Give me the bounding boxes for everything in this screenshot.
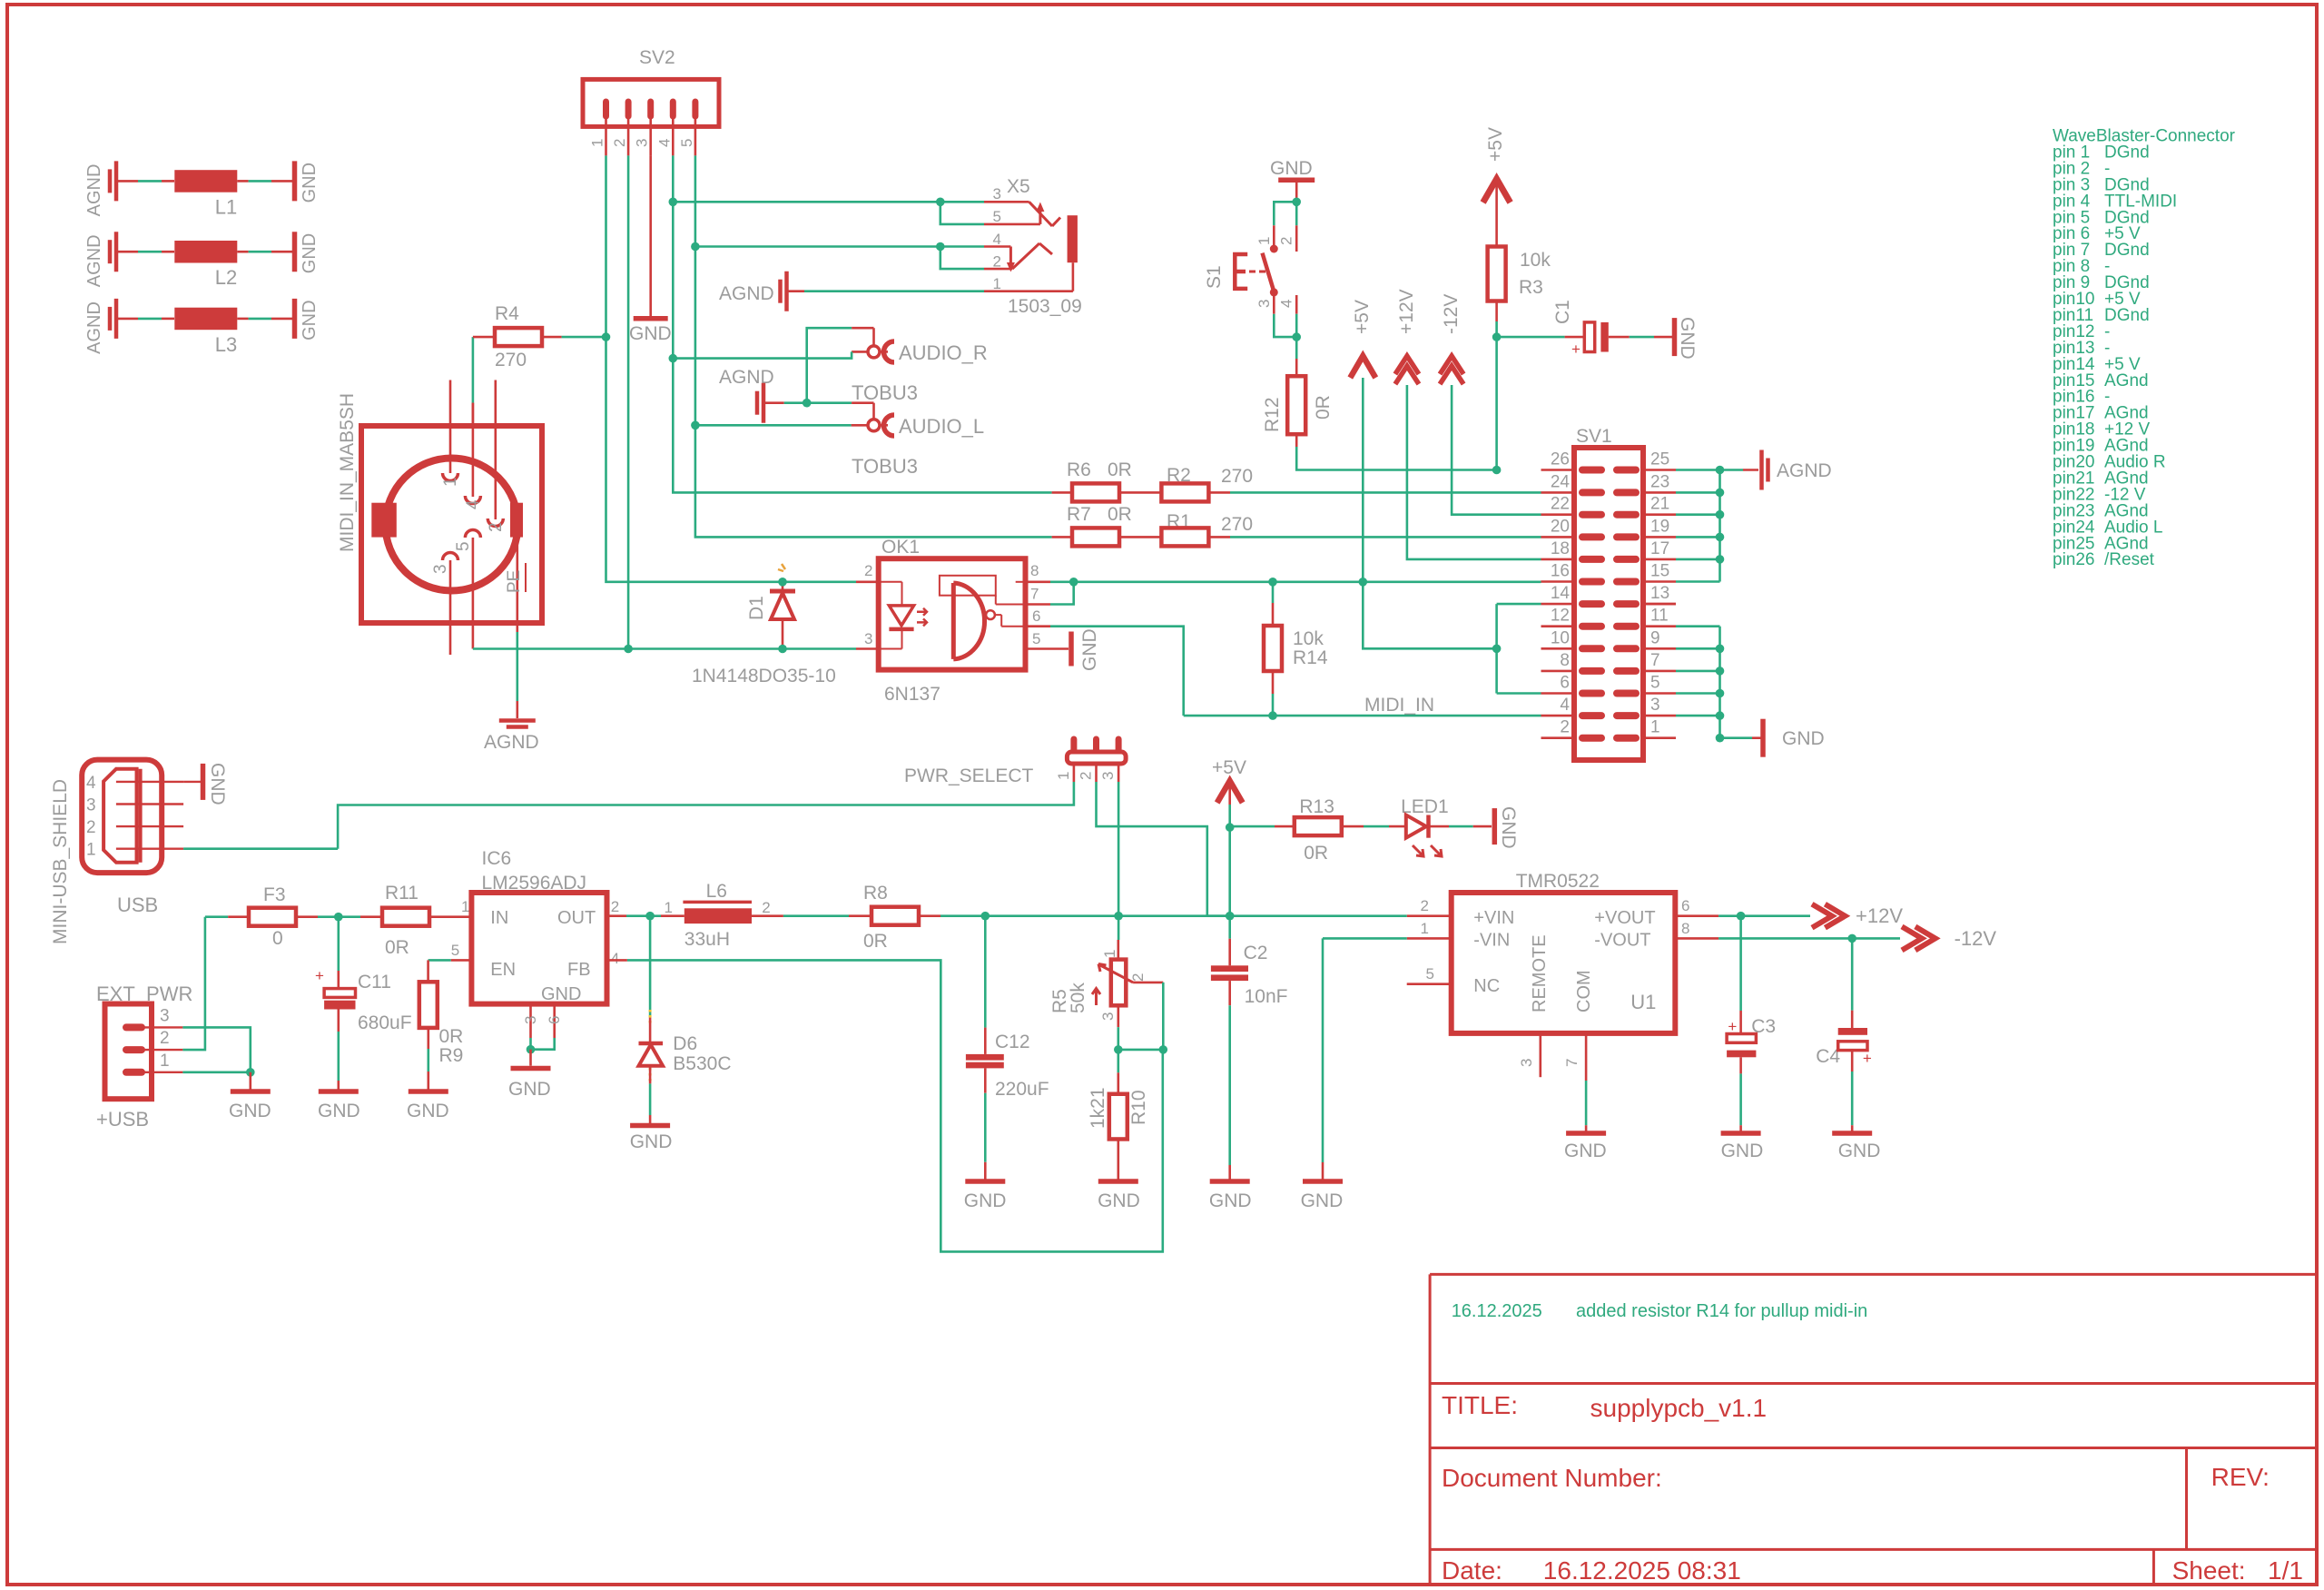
svg-text:1: 1 xyxy=(86,841,96,860)
ground GND (SV1.1) xyxy=(1720,736,1753,739)
svg-text:AUDIO_R: AUDIO_R xyxy=(899,341,988,364)
junction +5V/R13 xyxy=(1226,823,1235,832)
wire SV2.2 down xyxy=(627,155,630,648)
svg-text:MIDI_IN: MIDI_IN xyxy=(1364,695,1434,716)
svg-text:GND: GND xyxy=(541,984,581,1004)
svg-text:18: 18 xyxy=(1551,539,1570,558)
svg-text:C12: C12 xyxy=(995,1032,1030,1052)
wire to R5 node xyxy=(985,914,1118,917)
junction S1 bottom xyxy=(1292,332,1301,341)
wire AGND to AUDIO_L top xyxy=(807,401,852,404)
svg-text:6: 6 xyxy=(546,1016,563,1024)
SV1 pin 13 longer stub xyxy=(1643,603,1676,606)
svg-text:GND: GND xyxy=(300,163,320,202)
SV1 pin 7 xyxy=(1617,667,1636,675)
DIN pin3 stub xyxy=(449,560,452,655)
svg-text:GND: GND xyxy=(1079,628,1100,671)
svg-text:5: 5 xyxy=(454,541,473,551)
junction SV1.10 xyxy=(1492,645,1502,654)
junction SV2 pin5 / X5.4 xyxy=(691,242,700,252)
junction +5V rail xyxy=(1359,578,1368,587)
wire SV1 left bus 14-10-6 xyxy=(1497,603,1541,606)
SV1 pin 26 xyxy=(1541,469,1575,471)
svg-text:+12V: +12V xyxy=(1856,904,1903,927)
svg-text:DGnd: DGnd xyxy=(2104,306,2150,325)
svg-text:5: 5 xyxy=(1032,630,1040,647)
svg-text:17: 17 xyxy=(1650,539,1669,558)
svg-text:3: 3 xyxy=(1518,1059,1535,1067)
svg-text:1: 1 xyxy=(1055,772,1072,780)
SV1 pin 18 xyxy=(1541,558,1575,561)
svg-text:GND: GND xyxy=(630,1131,673,1152)
svg-text:1: 1 xyxy=(993,275,1001,292)
USB pin 4 xyxy=(116,781,183,783)
wire SV1 right AGND bus xyxy=(1676,491,1720,494)
svg-text:GND: GND xyxy=(207,763,228,805)
svg-text:1: 1 xyxy=(1256,237,1273,245)
svg-text:MINI-USB_SHIELD: MINI-USB_SHIELD xyxy=(50,779,71,944)
SV1 pin 21 xyxy=(1617,511,1636,518)
svg-text:3: 3 xyxy=(522,1016,539,1024)
svg-text:270: 270 xyxy=(1221,514,1253,535)
PWR_SELECT pin 1 xyxy=(1070,739,1077,751)
wire C2 node to TMR +VIN xyxy=(1230,914,1407,917)
svg-text:5: 5 xyxy=(1650,674,1660,693)
svg-text:5: 5 xyxy=(1426,965,1434,983)
SV1 pin 25 xyxy=(1617,467,1636,474)
svg-text:3: 3 xyxy=(1650,696,1660,715)
OK1 pin3 stub xyxy=(856,647,879,650)
svg-text:R10: R10 xyxy=(1128,1090,1149,1125)
svg-text:1: 1 xyxy=(589,139,606,147)
svg-text:2: 2 xyxy=(1078,772,1095,780)
svg-text:3: 3 xyxy=(1099,1012,1117,1021)
wire SV2.4 down xyxy=(673,155,1051,492)
OK1 pin6 stub xyxy=(1026,625,1051,627)
svg-text:2: 2 xyxy=(160,1029,170,1048)
svg-text:R6: R6 xyxy=(1067,459,1091,480)
SV1 pin 15 xyxy=(1617,578,1636,586)
svg-text:4: 4 xyxy=(655,139,673,147)
junction R14 top xyxy=(1268,578,1277,587)
wire PE to AGND xyxy=(516,632,518,701)
svg-text:AGND: AGND xyxy=(84,164,104,217)
svg-text:0R: 0R xyxy=(1108,504,1132,525)
wire AUDIO_R top to AGND xyxy=(807,328,852,403)
svg-text:OK1: OK1 xyxy=(881,537,920,558)
SV1 pin 17 xyxy=(1617,556,1636,563)
svg-text:AGND: AGND xyxy=(484,732,539,753)
svg-text:C11: C11 xyxy=(358,972,391,993)
svg-text:3: 3 xyxy=(431,564,450,574)
ground GND (C2) xyxy=(1210,1179,1250,1184)
wire SV2.5 down xyxy=(695,155,1052,537)
svg-text:3: 3 xyxy=(86,796,96,815)
svg-text:6: 6 xyxy=(1032,607,1040,625)
svg-text:IC6: IC6 xyxy=(482,848,512,869)
svg-text:270: 270 xyxy=(495,350,527,370)
svg-text:+VOUT: +VOUT xyxy=(1594,908,1655,928)
DIN pin2 stub xyxy=(494,380,497,520)
SV2 pin 5 xyxy=(692,102,698,116)
IC6 EN stub to R9 xyxy=(451,959,472,962)
wire OK1.6 to MIDI_IN xyxy=(1050,627,1184,716)
SV1 pin 9 xyxy=(1617,645,1636,652)
svg-text:2: 2 xyxy=(487,522,506,532)
SV1 pin 13 xyxy=(1617,600,1636,607)
junction IC6 gnd pins xyxy=(527,1045,536,1054)
switch S1 xyxy=(1274,202,1296,225)
svg-text:680uF: 680uF xyxy=(358,1012,412,1033)
svg-text:added resistor R14 for pullup: added resistor R14 for pullup midi-in xyxy=(1576,1301,1867,1321)
junction AGND/TOBU3 xyxy=(803,399,812,408)
wire L6 to R8 xyxy=(783,914,849,917)
svg-text:GND: GND xyxy=(1498,806,1519,849)
svg-text:R8: R8 xyxy=(863,883,888,904)
svg-text:3: 3 xyxy=(993,185,1001,202)
svg-text:7: 7 xyxy=(1650,651,1660,670)
svg-text:1: 1 xyxy=(160,1052,170,1071)
junction R14 bottom / MIDI_IN xyxy=(1268,711,1277,720)
svg-text:U1: U1 xyxy=(1630,991,1656,1013)
SV1 pin 11 xyxy=(1617,623,1636,630)
svg-text:R7: R7 xyxy=(1067,504,1091,525)
svg-text:2: 2 xyxy=(762,899,770,916)
svg-text:6: 6 xyxy=(1560,674,1570,693)
svg-text:R12: R12 xyxy=(1262,397,1283,432)
svg-text:6: 6 xyxy=(1681,897,1689,914)
supply arrow -12V out xyxy=(1902,926,1922,950)
IC6 bottom pins 3,6 xyxy=(529,1004,532,1038)
svg-text:GND: GND xyxy=(1564,1141,1607,1161)
svg-text:+: + xyxy=(1863,1050,1872,1067)
junction R4/SV2.1 xyxy=(602,332,611,341)
svg-text:R13: R13 xyxy=(1299,796,1334,817)
DIN PE pin xyxy=(516,538,518,605)
svg-text:16.12.2025: 16.12.2025 xyxy=(1452,1301,1542,1321)
junction C4/-12V xyxy=(1847,934,1856,943)
svg-text:1N4148DO35-10: 1N4148DO35-10 xyxy=(692,666,836,686)
svg-text:5: 5 xyxy=(678,139,695,147)
EXT_PWR pin 2 xyxy=(126,1046,142,1053)
inductor L3 xyxy=(114,299,119,339)
ground GND (LED1) xyxy=(1492,808,1498,844)
svg-text:8: 8 xyxy=(1560,651,1570,670)
title block xyxy=(1430,1274,2317,1585)
junction EXT_PWR GND xyxy=(246,1068,255,1077)
junction C2 node xyxy=(1226,912,1235,921)
wire MIDI_IN to SV1.4 xyxy=(1184,715,1541,717)
wire PWR_SELECT.3 down to R8 node xyxy=(1118,782,1120,916)
svg-text:3: 3 xyxy=(634,139,651,147)
svg-text:0R: 0R xyxy=(1108,459,1132,480)
ground GND (C4) xyxy=(1832,1131,1872,1136)
svg-text:21: 21 xyxy=(1650,495,1669,514)
svg-text:GND: GND xyxy=(300,233,320,273)
jumper TOBU3 AUDIO_L xyxy=(868,420,880,431)
svg-text:GND: GND xyxy=(1301,1190,1344,1211)
svg-text:FB: FB xyxy=(567,960,591,980)
junction R3/C1 xyxy=(1492,332,1502,341)
DIN pin1 stub xyxy=(449,380,452,474)
svg-text:270: 270 xyxy=(1221,466,1253,487)
X5 pin 4 + arrow xyxy=(984,245,1010,248)
svg-text:4: 4 xyxy=(464,499,483,509)
svg-text:TITLE:: TITLE: xyxy=(1442,1391,1518,1419)
wire EXT_PWR.1 to GND node xyxy=(182,1072,250,1074)
svg-text:33uH: 33uH xyxy=(684,929,730,950)
wire AGND to X5.1 xyxy=(804,290,984,292)
junction X5.3/X5.5 xyxy=(936,198,945,207)
wire SV2.4 to X5.3 xyxy=(673,201,984,203)
svg-text:8: 8 xyxy=(1030,562,1039,579)
SV1 pin 16 xyxy=(1541,580,1575,583)
svg-text:0R: 0R xyxy=(385,937,409,958)
svg-text:R11: R11 xyxy=(385,883,419,904)
SV1 pin 2 xyxy=(1541,736,1575,739)
svg-text:GND: GND xyxy=(508,1079,551,1100)
svg-text:GND: GND xyxy=(629,323,672,344)
svg-text:GND: GND xyxy=(1838,1141,1881,1161)
svg-text:NC: NC xyxy=(1473,976,1500,996)
svg-text:C2: C2 xyxy=(1244,943,1268,963)
OK1 pin2 stub xyxy=(856,580,879,583)
svg-text:7: 7 xyxy=(1563,1059,1581,1067)
svg-text:1: 1 xyxy=(1650,718,1660,737)
wire to C2 node xyxy=(1118,914,1230,917)
OK1 pin8 stub xyxy=(1026,580,1051,583)
resistor R9 0R xyxy=(427,960,429,982)
junction SV1.26 xyxy=(1492,466,1502,475)
svg-text:COM: COM xyxy=(1574,970,1594,1012)
svg-text:1/1: 1/1 xyxy=(2268,1556,2303,1585)
svg-text:IN: IN xyxy=(490,908,508,928)
svg-text:3: 3 xyxy=(1099,772,1117,780)
USB pin 1 xyxy=(116,848,183,850)
svg-text:pin26: pin26 xyxy=(2053,550,2095,569)
junction S1 top xyxy=(1292,198,1301,207)
wire MIDI return (DIN.5 to OK1.3) xyxy=(473,647,856,650)
svg-text:DGnd: DGnd xyxy=(2104,143,2150,162)
DIN pin5 stub xyxy=(472,538,475,649)
svg-text:3: 3 xyxy=(160,1006,170,1025)
TMR pin1 stub + GND wire xyxy=(1407,937,1452,940)
svg-text:1: 1 xyxy=(1101,950,1118,958)
AGND under DIN xyxy=(499,718,536,723)
svg-text:1: 1 xyxy=(665,899,673,916)
svg-text:-12V: -12V xyxy=(1955,927,1997,950)
ground GND (SV2 pin3) xyxy=(649,155,652,318)
junction F3/C11 xyxy=(334,913,343,922)
svg-text:7: 7 xyxy=(1030,586,1039,603)
wire R12 to SV1.26 net xyxy=(1296,447,1496,470)
svg-text:GND: GND xyxy=(407,1101,449,1121)
svg-text:1: 1 xyxy=(441,477,460,487)
svg-text:S1: S1 xyxy=(1204,265,1225,289)
svg-text:D6: D6 xyxy=(673,1033,697,1054)
svg-text:15: 15 xyxy=(1650,562,1669,581)
svg-text:DGnd: DGnd xyxy=(2104,241,2150,260)
inductor L2 xyxy=(114,232,119,272)
junction D1 bottom xyxy=(778,645,787,654)
SV1 pin 20 xyxy=(1541,536,1575,538)
svg-text:L2: L2 xyxy=(215,266,237,289)
svg-text:AGND: AGND xyxy=(84,301,104,354)
svg-text:GND: GND xyxy=(964,1190,1007,1211)
wire SV2.5 to X5.4 xyxy=(695,245,984,248)
TMR pin5 stub xyxy=(1407,983,1452,985)
svg-text:R3: R3 xyxy=(1519,277,1543,298)
svg-text:+USB: +USB xyxy=(96,1108,149,1131)
X5 tip bar xyxy=(1068,215,1078,262)
EXT_PWR pin 3 xyxy=(126,1023,142,1031)
wire R2 to SV1.24 xyxy=(1230,491,1541,494)
junction R5.2/FB xyxy=(1159,1045,1168,1054)
svg-text:F3: F3 xyxy=(263,884,286,905)
svg-text:20: 20 xyxy=(1551,517,1570,536)
TMR pin7 stub to GND xyxy=(1585,1033,1588,1081)
svg-text:2: 2 xyxy=(1278,237,1295,245)
SV1 pin 10 xyxy=(1541,647,1575,650)
wire SV2.5 to AUDIO_L xyxy=(695,424,852,427)
wire +5V link down to SV1 row10 xyxy=(1363,582,1496,649)
X5 pin 2 ring contact xyxy=(984,268,1012,271)
svg-text:23: 23 xyxy=(1650,472,1669,491)
ground GND (TMR -VIN) xyxy=(1303,1179,1343,1184)
svg-text:12: 12 xyxy=(1551,607,1570,626)
svg-text:1: 1 xyxy=(461,898,469,915)
svg-text:4: 4 xyxy=(993,231,1001,248)
wire PWR_SELECT.2 to +5V node xyxy=(1097,782,1230,916)
svg-text:+5V: +5V xyxy=(1485,127,1506,162)
wire USB.1 xyxy=(183,847,338,850)
SV2 pin 2 xyxy=(625,102,632,116)
OK1 internal LED xyxy=(879,581,902,583)
svg-text:R14: R14 xyxy=(1293,647,1328,668)
supply arrow +12V out xyxy=(1812,904,1832,928)
svg-text:1k21: 1k21 xyxy=(1088,1087,1108,1129)
svg-text:4: 4 xyxy=(1560,696,1570,715)
svg-text:GND: GND xyxy=(318,1101,360,1121)
ground GND (D6) xyxy=(630,1123,670,1129)
svg-text:2: 2 xyxy=(86,818,96,837)
svg-text:GND: GND xyxy=(1209,1190,1252,1211)
svg-text:MIDI_IN_MAB5SH: MIDI_IN_MAB5SH xyxy=(337,393,358,552)
SV1 pin 23 xyxy=(1617,489,1636,496)
SV1 pin 1 xyxy=(1617,735,1636,742)
svg-text:X5: X5 xyxy=(1007,176,1030,197)
ground GND (C11) xyxy=(319,1089,359,1094)
junction C3/+12V xyxy=(1737,912,1746,921)
svg-text:L6: L6 xyxy=(706,881,727,902)
svg-text:1: 1 xyxy=(1421,920,1429,937)
svg-text:5: 5 xyxy=(993,208,1001,225)
TMR pin8 -VOUT xyxy=(1675,937,1718,940)
SV1 pin 19 xyxy=(1617,533,1636,540)
svg-text:26: 26 xyxy=(1551,450,1570,469)
TMR pin2 stub xyxy=(1407,914,1452,917)
svg-text:AGND: AGND xyxy=(1777,460,1832,481)
wire R4 right to SV2.1 net xyxy=(562,336,606,339)
TMR pin6 +VOUT xyxy=(1675,914,1718,917)
wire IC6.OUT node xyxy=(607,914,627,917)
svg-text:2: 2 xyxy=(611,898,619,915)
svg-text:+VIN: +VIN xyxy=(1473,908,1514,928)
SV1 pin 6 xyxy=(1541,692,1575,695)
svg-text:10k: 10k xyxy=(1520,250,1551,271)
svg-text:+5V: +5V xyxy=(1212,757,1246,778)
svg-text:L1: L1 xyxy=(215,195,237,218)
svg-text:1503_09: 1503_09 xyxy=(1008,296,1082,317)
svg-text:3: 3 xyxy=(1256,300,1273,308)
svg-text:GND: GND xyxy=(1677,317,1698,360)
svg-text:C1: C1 xyxy=(1552,300,1573,324)
svg-text:-VOUT: -VOUT xyxy=(1594,931,1650,951)
svg-text:L3: L3 xyxy=(215,333,237,356)
svg-text:5: 5 xyxy=(451,942,459,959)
ground GND (IC6) xyxy=(511,1066,551,1072)
svg-text:GND: GND xyxy=(229,1101,271,1121)
junction SV2.5/AUDIO_L xyxy=(691,421,700,430)
SV2 pin 3 xyxy=(647,102,654,116)
wire R5.2 down xyxy=(1162,983,1165,1050)
svg-text:10k: 10k xyxy=(1293,628,1324,649)
wire X5.5 loop xyxy=(940,202,984,224)
svg-text:0: 0 xyxy=(272,928,283,949)
svg-text:AGND: AGND xyxy=(719,283,774,304)
ground GND (USB.4) xyxy=(183,781,201,783)
svg-text:GND: GND xyxy=(1782,728,1825,749)
svg-text:2: 2 xyxy=(1421,897,1429,914)
USB pin 2 xyxy=(116,825,183,827)
SV1 pin 14 xyxy=(1541,603,1575,606)
svg-text:0R: 0R xyxy=(439,1026,464,1047)
svg-text:D1: D1 xyxy=(746,596,767,620)
svg-text:TOBU3: TOBU3 xyxy=(852,455,918,478)
svg-text:6N137: 6N137 xyxy=(884,684,940,705)
wire R3 junction down to SV1.26 xyxy=(1495,337,1498,469)
svg-text:REV:: REV: xyxy=(2211,1463,2270,1491)
junction R8/C12 xyxy=(981,912,990,921)
DIN pin4 stub xyxy=(472,403,475,497)
svg-text:AUDIO_L: AUDIO_L xyxy=(899,415,984,438)
SV1 pin 24 xyxy=(1541,491,1575,494)
ERC marks D6 xyxy=(649,1010,652,1024)
wire R1 to SV1.20 xyxy=(1230,536,1541,538)
ground GND (OK1 pin5) xyxy=(1050,647,1068,650)
svg-text:SV2: SV2 xyxy=(639,47,675,68)
svg-text:Sheet:: Sheet: xyxy=(2172,1556,2246,1585)
svg-text:AGND: AGND xyxy=(719,367,774,388)
svg-text:GND: GND xyxy=(1721,1141,1764,1161)
svg-text:2: 2 xyxy=(993,253,1001,271)
analog ground AGND (SV1.25) xyxy=(1676,469,1743,471)
junction X5.4/X5.2 xyxy=(936,242,945,252)
wire R4 left to DIN pin4 xyxy=(472,337,475,403)
ground GND (R9) xyxy=(409,1089,448,1094)
wire X5.2 loop xyxy=(940,247,984,270)
jumper TOBU3 AUDIO_R xyxy=(868,346,880,358)
svg-text:OUT: OUT xyxy=(557,908,596,928)
junction R5 top node xyxy=(1114,912,1123,921)
svg-text:14: 14 xyxy=(1551,584,1571,603)
SV1 pin 12 xyxy=(1541,625,1575,627)
svg-text:GND: GND xyxy=(1098,1190,1140,1211)
svg-text:+: + xyxy=(1571,341,1581,358)
PWR_SELECT pin 3 xyxy=(1116,739,1122,751)
ground GND (EXT_PWR) xyxy=(249,1072,251,1091)
OK1 pin7 stub xyxy=(1026,603,1051,606)
